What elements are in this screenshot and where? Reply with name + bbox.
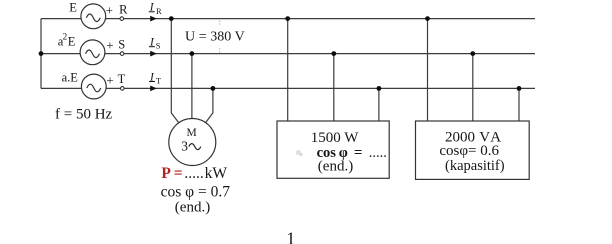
svg-text:(end.): (end.) (175, 200, 210, 216)
svg-text:cosφ= 0.6: cosφ= 0.6 (439, 143, 499, 159)
svg-text:3: 3 (181, 139, 188, 154)
svg-text:(kapasitif): (kapasitif) (445, 158, 505, 174)
svg-text:2: 2 (63, 31, 68, 41)
svg-text:+: + (106, 38, 113, 53)
svg-text:cos φ = 0.7: cos φ = 0.7 (161, 184, 231, 201)
svg-text:+: + (106, 72, 113, 87)
svg-text:T: T (118, 72, 126, 86)
svg-text:S: S (118, 37, 125, 51)
svg-text:1500 W: 1500 W (311, 130, 359, 146)
svg-text:1: 1 (286, 228, 295, 244)
svg-text:P=.....kW: P=.....kW (161, 165, 227, 182)
svg-text:R: R (156, 6, 162, 16)
svg-text:a.E: a.E (62, 71, 79, 85)
svg-text:T: T (156, 75, 162, 85)
svg-text:M: M (186, 127, 196, 139)
svg-text:R: R (119, 2, 128, 16)
svg-text:S: S (156, 41, 161, 51)
svg-text:+: + (106, 3, 113, 18)
svg-text:U = 380 V: U = 380 V (185, 29, 245, 44)
svg-text:E: E (69, 1, 77, 15)
svg-text:f = 50 Hz: f = 50 Hz (55, 106, 113, 122)
svg-text:(end.): (end.) (318, 158, 353, 174)
svg-text:E: E (68, 34, 76, 48)
